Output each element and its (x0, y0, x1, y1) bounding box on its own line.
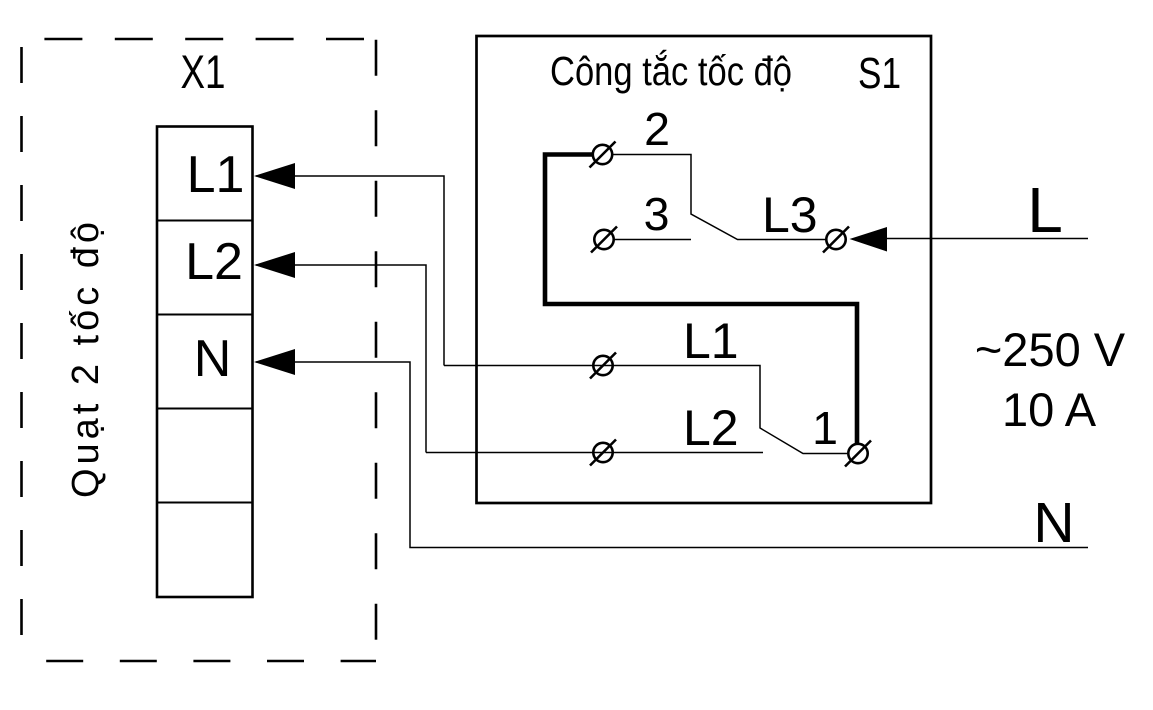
svg-text:N: N (194, 330, 232, 388)
terminal label N (194, 330, 232, 388)
label S1 (858, 49, 901, 98)
wire contact 3 stub (open) (615, 239, 692, 241)
terminal L2 (590, 440, 616, 466)
arrow into X1 L2 (254, 252, 295, 278)
terminal label L2 (185, 233, 243, 291)
svg-text:X1: X1 (181, 45, 226, 98)
pin label L1 (683, 313, 739, 369)
terminal 1 (845, 441, 871, 467)
pin label 2 (644, 103, 670, 155)
net label N (1033, 491, 1074, 555)
svg-text:L: L (1027, 174, 1063, 246)
terminal 2 (590, 142, 616, 168)
pin label L3 (762, 187, 818, 243)
wire L1 arrow run (switch to X1 terminal L1) (256, 176, 444, 366)
rating label 10 A (1002, 383, 1097, 436)
svg-text:L2: L2 (683, 400, 739, 456)
thick wire bus from contact 2 to contact 1 (545, 155, 857, 444)
wire L supply line (887, 238, 1088, 240)
pin label 3 (644, 188, 670, 240)
svg-text:~250 V: ~250 V (975, 323, 1126, 376)
wire L2 arrow run (switch to X1 terminal L2) (256, 265, 426, 453)
svg-text:3: 3 (644, 188, 670, 240)
svg-text:10 A: 10 A (1002, 383, 1097, 436)
svg-text:Công tắc tốc độ: Công tắc tốc độ (550, 48, 792, 94)
terminal L1 (590, 353, 616, 379)
svg-text:1: 1 (812, 402, 838, 454)
label Quạt 2 tốc độ (65, 222, 107, 498)
svg-text:L1: L1 (683, 313, 739, 369)
pin label 1 (812, 402, 838, 454)
wire L2 contact line in switch (open) (426, 452, 763, 454)
svg-text:L2: L2 (185, 233, 243, 291)
terminal L3 (823, 227, 849, 253)
svg-text:2: 2 (644, 103, 670, 155)
pin label L2 (683, 400, 739, 456)
svg-text:L1: L1 (187, 146, 245, 204)
terminal 3 (591, 227, 617, 253)
label X1 (181, 45, 226, 98)
arrow into X1 L1 (254, 163, 295, 189)
terminal label L1 (187, 146, 245, 204)
net label L (1027, 174, 1063, 246)
fan enclosure dashed box (22, 39, 377, 661)
wire L3 to contact 2 (moving contact) (613, 155, 826, 240)
rating label ~250 V (975, 323, 1126, 376)
terminal block X1 (157, 127, 253, 598)
svg-text:Quạt 2 tốc độ: Quạt 2 tốc độ (65, 222, 107, 498)
arrow into terminal L3 (850, 227, 888, 252)
switch S1 box (477, 36, 932, 503)
wire N run (N bus to X1 terminal N) (256, 362, 1088, 548)
svg-text:N: N (1033, 491, 1074, 555)
label Công tắc tốc độ (550, 48, 792, 94)
wire L1 contact line in switch (444, 366, 847, 454)
arrow into X1 N (254, 349, 295, 375)
svg-text:S1: S1 (858, 49, 901, 98)
svg-text:L3: L3 (762, 187, 818, 243)
